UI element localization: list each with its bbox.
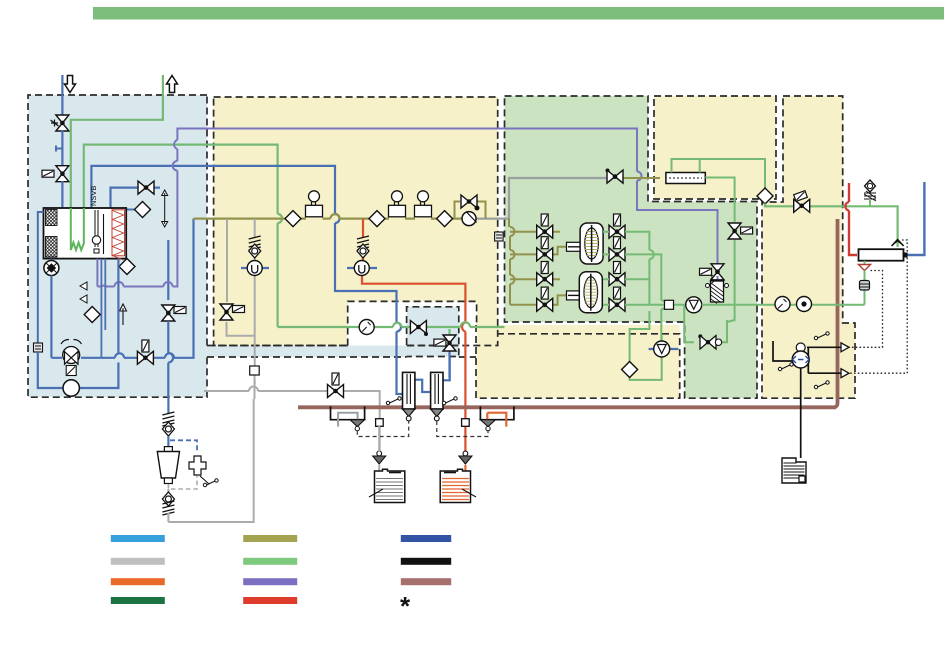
valve row4 right (609, 298, 625, 311)
spring S4 (162, 412, 174, 426)
pump P3 (462, 212, 477, 226)
valve row3 left actuator (541, 262, 548, 274)
tank 2 (440, 469, 476, 502)
legend row1 col3 (401, 535, 451, 542)
switch r2 (814, 381, 829, 389)
wire: blue demin feed (403, 357, 450, 394)
valve row4 left (537, 298, 553, 311)
valve VG2 actuator (332, 373, 339, 385)
wire: red condenser (849, 183, 857, 255)
border left blue box (28, 95, 207, 397)
region: right yellow (762, 96, 855, 398)
wire: red branch (362, 219, 465, 454)
svg-text:NSVB: NSVB (89, 186, 98, 206)
wire: header bumps (115, 353, 174, 363)
valve 3way VS2 (443, 335, 456, 351)
valve VL1 (700, 336, 722, 350)
fan pump FP1 (686, 297, 702, 313)
wire: blue left drain (38, 212, 44, 343)
wire: purifier blue (167, 397, 169, 413)
arrow inlet (65, 76, 76, 93)
pump right (797, 297, 812, 312)
diamond D4 (285, 211, 301, 227)
valve VT2 (728, 223, 741, 239)
valve row4 right actuator (614, 287, 621, 299)
wire: green collectors (603, 232, 686, 341)
wire: green inlet (71, 75, 163, 239)
wire: dashed sample headers (357, 421, 488, 437)
pump P2 (63, 380, 79, 396)
valve VS1 dot (424, 332, 428, 336)
wire: purple bumps (101, 140, 642, 287)
instrument FI1 (306, 191, 323, 217)
separator 1 (331, 406, 365, 430)
cross fitting (189, 456, 206, 475)
region: sampling blue box (407, 307, 459, 357)
wire: olive valve bypass (455, 202, 486, 219)
valve VG1 actuator (233, 306, 245, 313)
wire: dotted control lines (849, 240, 907, 373)
restrictor grey (376, 419, 384, 427)
wire: green to dryer (702, 304, 865, 306)
region: white instrument box (348, 301, 477, 356)
wire: olive bumps (510, 227, 515, 284)
flow arrow up (120, 304, 127, 325)
condenser tank (859, 249, 904, 261)
wire: green collector bumps (649, 250, 665, 309)
svg-text:*: * (400, 591, 411, 621)
border sampling blue box (407, 307, 476, 357)
controller box (782, 458, 806, 483)
diamond D7 (622, 362, 638, 378)
border strip (207, 346, 407, 358)
valve row2 left (537, 248, 553, 261)
valve 3way V3 (162, 305, 175, 321)
border middle yellow box (214, 97, 498, 346)
tank 1 (369, 469, 405, 502)
legend row3 col2 (243, 578, 297, 585)
legend row2 col2 (243, 558, 297, 565)
legend row3 col1 (111, 578, 165, 585)
instrument FI2 (389, 191, 406, 217)
wire: grey into tank1 (378, 426, 380, 497)
flange tick (56, 146, 63, 152)
damper (860, 281, 870, 291)
region: light blue strip to sampling (207, 346, 407, 358)
valve row3 right (609, 273, 625, 286)
heat exchanger NSVB (44, 208, 127, 260)
wire: inlet blue top (61, 75, 63, 116)
border lower yellow box (476, 325, 680, 398)
region: cooling water (light blue) (28, 95, 207, 397)
border green region (505, 96, 758, 398)
valve VC2 (56, 166, 69, 182)
valve VR1 actuator (794, 191, 808, 202)
valve 3way purple actuator (700, 268, 712, 275)
wire: blue bump crossings (335, 214, 401, 332)
diamond D3 (84, 307, 100, 323)
legend row2 col1 (111, 558, 165, 565)
turbine 2 (579, 272, 602, 313)
silencer (666, 173, 705, 184)
check valve C3 (357, 244, 369, 258)
legend row1 col1 (111, 535, 165, 542)
wire: blue lower loop (38, 259, 119, 388)
wire: olive to silencer valve (607, 177, 660, 179)
valve VG2 (328, 385, 344, 398)
legend row2 col3 (401, 558, 451, 565)
legend row1 col2 (243, 535, 297, 542)
sensor box left (34, 343, 43, 352)
wire: blue bottom header (51, 219, 193, 398)
valve VB3 (461, 195, 477, 208)
wire: blue to cone (167, 436, 169, 447)
valve VT1 (607, 170, 623, 183)
spring check S2 (249, 236, 261, 250)
valve VC2 actuator (42, 170, 54, 177)
wire: green sampling line (278, 326, 505, 328)
region: green turbine area (505, 96, 758, 398)
wire: orange into tank2 (464, 465, 466, 497)
legend row3 col3 (401, 578, 451, 585)
region borders (28, 95, 855, 398)
junction square (903, 253, 908, 258)
fan pump FP2 (654, 341, 670, 357)
valve VC1 motor (51, 120, 59, 127)
tri out 1 (841, 343, 849, 352)
spring check S3 (357, 236, 369, 250)
valve VS1 (410, 321, 426, 334)
border top yellow box (654, 96, 776, 199)
region: lower yellow (476, 325, 680, 398)
fan pump FP2 stubs (649, 348, 679, 350)
check C4 (162, 422, 174, 436)
wire: red bump (845, 202, 849, 211)
wire: blue between valves (61, 130, 63, 166)
gauge G1 (359, 320, 374, 335)
region: middle yellow (214, 97, 498, 346)
arrow outlet (167, 76, 178, 93)
valve row4 left actuator (541, 287, 548, 299)
check C5 (162, 492, 174, 506)
travel arrow (162, 190, 168, 227)
valve row2 right (609, 248, 625, 261)
region: top yellow box (654, 96, 776, 199)
legend row4 col1 (111, 597, 165, 604)
instrument FI3 (415, 191, 432, 217)
ion column 2 (431, 372, 443, 421)
wire: red bump (462, 323, 465, 332)
wire: olive bump (331, 214, 340, 219)
wire: grey blowdown (204, 391, 380, 454)
check valve C2 (249, 244, 261, 258)
ion column 1 (403, 372, 415, 421)
wire: green silencer loop (672, 159, 766, 322)
diamond D8 (757, 188, 773, 204)
valve VB2 actuator (142, 340, 149, 352)
restrictor orange (462, 419, 470, 427)
wire: green long supply (84, 145, 278, 327)
purifier cone (157, 447, 179, 484)
valve 3way VS2 actuator (434, 339, 446, 346)
gauge right (775, 297, 790, 312)
switch r1 (814, 332, 829, 340)
restrictor box (250, 366, 260, 375)
wire: blue hx drains (101, 259, 105, 358)
wire: green turbine bypass down (630, 306, 727, 380)
wire: green crossover bumps (278, 214, 283, 223)
valve 3way V3 actuator (174, 307, 186, 314)
valve VB2 (137, 351, 153, 364)
switch glyph (203, 479, 218, 487)
wire: blue recirculation (91, 166, 402, 394)
relief valve RV1 (61, 339, 82, 375)
region: sampling blue box fill (407, 307, 459, 357)
valve VC1 (56, 115, 69, 131)
drain tick 2 (80, 295, 87, 303)
restrictor box green (665, 300, 674, 309)
diamond D6 (437, 211, 453, 227)
wire: black ejector lines (773, 341, 841, 458)
sensor box border (495, 232, 504, 241)
wire: green to right yellow (765, 204, 898, 248)
switch col2 (442, 397, 457, 405)
wire: green condensate (864, 261, 866, 305)
valve VG1 (220, 304, 233, 320)
separator 2 (480, 406, 514, 430)
drain triangle red (859, 265, 871, 271)
wire: vs2 stub green (448, 329, 450, 336)
valve row3 right actuator (614, 262, 621, 274)
valve VT2 actuator (741, 227, 753, 234)
valve 3way purple (711, 264, 724, 280)
border right yellow region (762, 96, 855, 398)
tri out 2 (841, 369, 849, 378)
wire: vs2 stub blue (448, 350, 450, 378)
pump PU3 stubs (347, 267, 377, 269)
switch lever (200, 476, 209, 484)
valve VL1 dot (698, 334, 702, 338)
dryer column (706, 275, 729, 304)
wire: blue valve to HX (61, 181, 63, 208)
chevron vent (892, 240, 904, 247)
switch col1 (386, 397, 401, 405)
wire: grey dashed drain (168, 476, 197, 489)
pump PU2 (247, 261, 262, 276)
funnel F2 (459, 451, 472, 464)
pump P1 (44, 259, 59, 276)
wire: blue right (906, 182, 925, 255)
valve row1 left (537, 225, 553, 238)
valve row3 left (537, 273, 553, 286)
border white instrument box (348, 301, 477, 345)
wire: green sampling bumps (393, 322, 470, 327)
wire: grey return riser (167, 513, 169, 522)
wire: grey bump (249, 387, 258, 391)
valve row2 left actuator (541, 237, 548, 249)
funnel F1 (373, 451, 386, 464)
wire: grey branch 1 (227, 219, 255, 336)
ejector top circle (796, 343, 805, 352)
valve row1 right actuator (614, 214, 621, 226)
ejector (792, 351, 809, 368)
wire: grey branch 2 (168, 219, 254, 522)
header bar (93, 7, 944, 20)
valve VR1 (794, 199, 810, 212)
diamond D5 (369, 211, 385, 227)
dotted from vent (849, 240, 907, 373)
legend row4 col2 (243, 597, 297, 604)
drain tick 1 (80, 282, 87, 290)
turbine 1 (580, 223, 603, 264)
wire: grey below cone (167, 489, 169, 494)
pump PU2 stubs (241, 267, 269, 269)
wire: purple stub to dryer (717, 276, 719, 279)
valve VH1 (138, 181, 154, 194)
spring S5 (162, 501, 174, 515)
valve row2 right actuator (614, 237, 621, 249)
wire: grey riser to silencer (477, 178, 608, 219)
valve row1 right (609, 225, 625, 238)
valve row1 left actuator (541, 214, 548, 226)
valve VT1 dot (606, 169, 610, 173)
dotted from drain (849, 271, 883, 348)
wire: hx stub to diamond (126, 209, 136, 211)
wire: olive distributor (509, 219, 570, 305)
switch r3 (778, 363, 793, 371)
wire: blue dashed branch (170, 440, 197, 453)
turbine stem 1 (567, 242, 585, 251)
wire: olive main process line (194, 218, 463, 220)
turbine stem 2 (567, 291, 585, 300)
pump PU3 (354, 261, 369, 276)
diamond D1 (135, 202, 151, 218)
relief spring valve (864, 180, 876, 206)
wire: purple HX return (97, 129, 717, 287)
diamond D2 (119, 259, 135, 275)
wire: brown main (298, 219, 838, 407)
wire: blue to valve VH1 (111, 188, 169, 300)
